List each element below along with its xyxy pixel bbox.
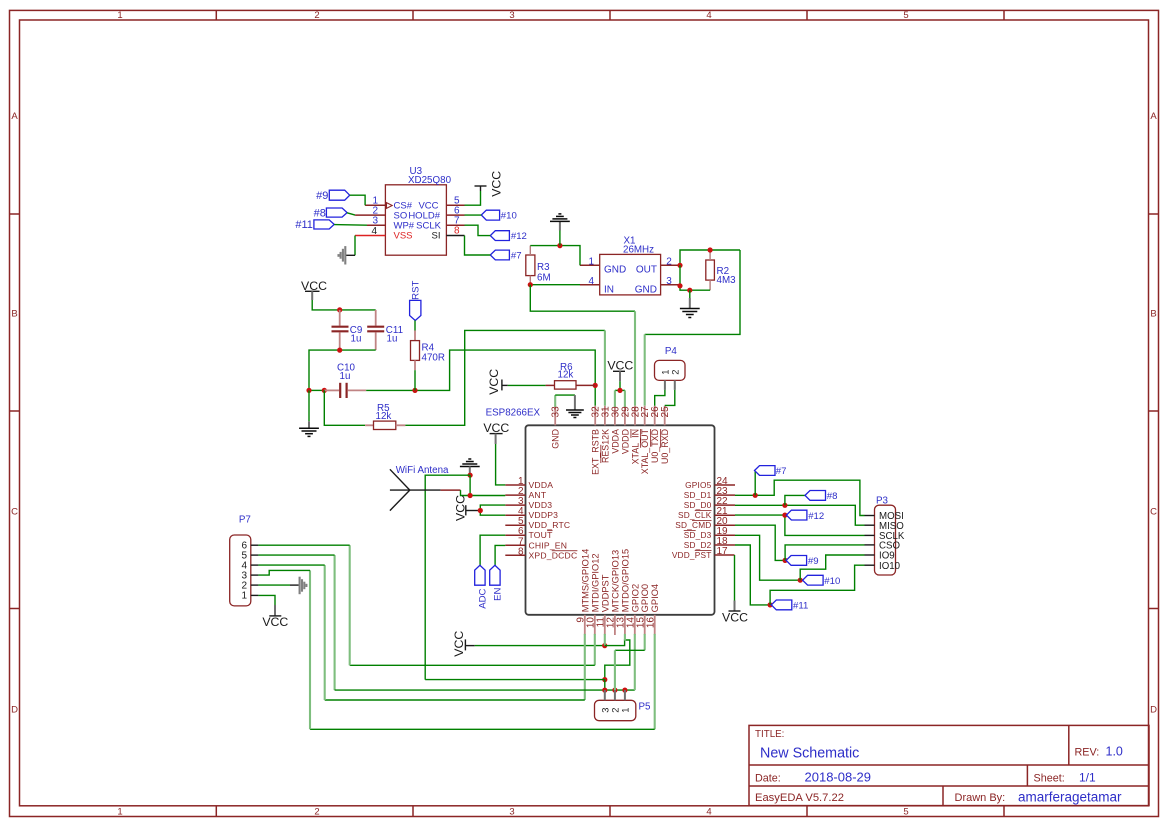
wire #8 to U3.2 bbox=[347, 213, 355, 215]
junction R3 bottom bbox=[528, 282, 533, 287]
svg-text:ANT: ANT bbox=[529, 490, 547, 500]
VCC flag above U3 (rotated) bbox=[475, 171, 504, 197]
P4 pin stubs bbox=[665, 380, 675, 390]
wire XTAL_OUT vertical to ESP pin 27 bbox=[644, 334, 646, 405]
svg-text:#9: #9 bbox=[808, 556, 819, 567]
wire SD_D2 (pin18) to IO10 and #11 bbox=[735, 545, 770, 605]
svg-text:#10: #10 bbox=[501, 211, 517, 222]
wire X1.2 OUT net bbox=[680, 250, 740, 265]
svg-text:D: D bbox=[1150, 705, 1157, 716]
junction R2 top bbox=[708, 247, 713, 252]
svg-text:SD_D1: SD_D1 bbox=[684, 490, 712, 500]
wire #11 to U3.3 bbox=[334, 224, 367, 227]
U3 pin 4 stub VSS bbox=[355, 235, 385, 237]
wire VCC to C9/C11 top bbox=[312, 300, 376, 310]
junction VDD3 net bbox=[478, 508, 483, 513]
net flag #7 (U3.8) bbox=[490, 250, 521, 261]
connector P5 body bbox=[595, 700, 652, 720]
net flag #7 bbox=[755, 466, 787, 478]
junction SD_D1 / #7 bbox=[753, 493, 758, 498]
svg-text:3: 3 bbox=[509, 807, 514, 818]
svg-text:VDDP3: VDDP3 bbox=[529, 510, 559, 520]
P7 pin stubs bbox=[251, 545, 259, 595]
svg-text:SD_CMD: SD_CMD bbox=[675, 520, 711, 530]
connector P3 body bbox=[875, 495, 896, 575]
svg-text:GND: GND bbox=[551, 429, 561, 449]
svg-text:2: 2 bbox=[314, 10, 319, 21]
svg-text:D: D bbox=[11, 705, 18, 716]
svg-text:4: 4 bbox=[706, 10, 711, 21]
wire pin 16 to P7.3 bbox=[310, 570, 655, 729]
wire VDD_PST (pin17) to VCC bbox=[734, 555, 736, 601]
svg-text:#7: #7 bbox=[511, 251, 522, 262]
ground (sloped, gray) at P7.2 bbox=[300, 577, 307, 595]
U3 pin 8 stub SI (black) bbox=[446, 235, 464, 237]
junction X1.3 stub bbox=[677, 283, 682, 288]
svg-text:SI: SI bbox=[432, 230, 441, 241]
wire pin 13 stub drop bbox=[624, 634, 626, 641]
wire pin 15 jog to P5.2 bbox=[615, 634, 645, 690]
svg-text:Date:: Date: bbox=[755, 773, 781, 785]
crystal X1 body bbox=[600, 236, 661, 295]
wire antenna long run to bottom nets bbox=[425, 475, 470, 679]
svg-text:TOUT: TOUT bbox=[529, 530, 554, 540]
ESP bottom pin stubs bbox=[585, 615, 655, 635]
wire P7.2 to ground bbox=[258, 584, 298, 586]
svg-text:C: C bbox=[11, 507, 18, 518]
wire pin 10 to P7.6 (W2) bbox=[350, 545, 595, 665]
junction pin 11 bbox=[602, 643, 607, 648]
ground (earth) below C10 rail bbox=[299, 421, 319, 436]
svg-text:#11: #11 bbox=[793, 601, 808, 612]
VCC flag below P7.1 (upside down) bbox=[262, 605, 288, 629]
svg-text:IO10: IO10 bbox=[879, 561, 901, 572]
ground (earth) below X1 bbox=[680, 290, 700, 317]
ground (earth, flipped) above X1 bbox=[550, 214, 570, 231]
svg-text:ADC: ADC bbox=[478, 588, 489, 608]
svg-text:REV:: REV: bbox=[1075, 747, 1100, 759]
svg-text:1: 1 bbox=[117, 10, 122, 21]
U3 pin names bbox=[394, 201, 442, 242]
wire #9 to U3.1 bbox=[350, 195, 365, 205]
wire P7.3 bbox=[258, 570, 310, 575]
svg-text:A: A bbox=[1150, 111, 1157, 122]
wire antenna net into P5.3 bbox=[604, 680, 606, 691]
junction SD_CLK / #12 bbox=[782, 513, 787, 518]
svg-text:1: 1 bbox=[620, 708, 630, 713]
wire VCC to ESP pin 11 VDDPST bbox=[475, 645, 605, 647]
junction SD_CMD / #9 bbox=[783, 558, 788, 563]
junction C10 left / R5 branch bbox=[322, 388, 327, 393]
U3 pin 1 stub with arrow bbox=[365, 203, 392, 209]
svg-text:P7: P7 bbox=[239, 515, 251, 526]
svg-text:A: A bbox=[11, 111, 18, 122]
svg-text:MTCK/GPIO13: MTCK/GPIO13 bbox=[610, 550, 620, 613]
svg-text:VSS: VSS bbox=[394, 231, 413, 242]
wire down to ground bbox=[308, 390, 310, 421]
wire SD_CLK (pin21) to SCLK bbox=[735, 515, 865, 535]
net flag EN bbox=[490, 565, 504, 601]
svg-text:12k: 12k bbox=[558, 369, 574, 380]
svg-text:1u: 1u bbox=[351, 334, 362, 345]
svg-text:470R: 470R bbox=[422, 353, 445, 364]
wire U3.8 to #7 bbox=[465, 236, 491, 256]
svg-text:4M3: 4M3 bbox=[717, 275, 737, 286]
P5 pin numbers bbox=[600, 708, 630, 713]
svg-text:WiFi Antena: WiFi Antena bbox=[396, 465, 449, 476]
svg-text:EN: EN bbox=[492, 588, 503, 601]
U3 pin numbers bbox=[371, 196, 460, 238]
junction P5.2 bbox=[612, 688, 617, 693]
U3 pin 3 stub bbox=[367, 224, 385, 226]
svg-text:B: B bbox=[1150, 309, 1156, 320]
ESP left pin numbers bbox=[518, 476, 524, 557]
svg-text:VDDPST: VDDPST bbox=[600, 574, 610, 612]
svg-text:1: 1 bbox=[117, 807, 122, 818]
svg-text:1u: 1u bbox=[387, 334, 398, 345]
svg-text:Drawn By:: Drawn By: bbox=[955, 792, 1006, 804]
svg-text:3: 3 bbox=[509, 10, 514, 21]
VCC flag top-left bbox=[301, 279, 327, 300]
ESP bottom pin names (rotated) bbox=[580, 549, 660, 613]
svg-text:VCC: VCC bbox=[490, 171, 504, 197]
svg-text:SD_D0: SD_D0 bbox=[684, 500, 712, 510]
svg-text:OUT: OUT bbox=[636, 264, 657, 275]
wire R5 left branch bbox=[324, 390, 365, 425]
svg-text:#8: #8 bbox=[827, 491, 838, 502]
VCC flag at ESP VDDA (pin1) bbox=[483, 421, 509, 444]
P5 pin stubs bbox=[605, 690, 625, 700]
svg-text:VCC: VCC bbox=[487, 369, 501, 395]
svg-text:XD25Q80: XD25Q80 bbox=[408, 175, 452, 186]
junction at gnd column bbox=[306, 388, 311, 393]
wire U3.6 to #10 bbox=[465, 214, 482, 216]
U3 pin 7 stub bbox=[446, 224, 464, 226]
svg-text:#10: #10 bbox=[824, 576, 840, 587]
wire R5 right to ESP pin 31 RES12K bbox=[405, 330, 605, 425]
resistor R2 bbox=[706, 250, 736, 290]
connector P4 body bbox=[655, 346, 686, 380]
U3 pin 6 stub bbox=[446, 214, 464, 216]
ESP right pin numbers bbox=[717, 476, 729, 557]
svg-text:SD_CLK: SD_CLK bbox=[678, 510, 712, 520]
svg-text:GPIO4: GPIO4 bbox=[650, 584, 660, 612]
svg-text:TITLE:: TITLE: bbox=[755, 729, 784, 740]
resistor R6 bbox=[546, 362, 596, 389]
U3 pin 5 stub bbox=[446, 204, 464, 206]
junction C9 bottom bbox=[337, 348, 342, 353]
VCC flag at VDD3/VDDP3 (rotated) bbox=[453, 495, 480, 521]
net flag #9 bbox=[786, 556, 818, 568]
wire P7.1 to VCC bbox=[258, 595, 275, 605]
net flag #11 bbox=[771, 600, 808, 612]
wire R3 top / X1.1 net bbox=[530, 246, 580, 266]
wire ESP pin33 GND bbox=[555, 395, 575, 407]
svg-text:VDDD: VDDD bbox=[620, 429, 630, 454]
svg-text:B: B bbox=[11, 309, 17, 320]
VCC flag for R6 (rotated) bbox=[487, 369, 508, 395]
svg-text:VCC: VCC bbox=[722, 610, 748, 624]
junction R4 bottom bbox=[412, 388, 417, 393]
svg-text:New Schematic: New Schematic bbox=[760, 746, 859, 762]
net flag #10 (U3.6) bbox=[481, 210, 517, 221]
svg-text:2018-08-29: 2018-08-29 bbox=[805, 770, 872, 785]
svg-text:XTAL_IN: XTAL_IN bbox=[631, 429, 641, 464]
wire P5 bus (W5) from P7.5 bbox=[335, 555, 635, 690]
svg-text:2: 2 bbox=[670, 370, 680, 375]
svg-text:VDD_PST: VDD_PST bbox=[672, 550, 712, 560]
svg-text:5: 5 bbox=[903, 807, 908, 818]
wire CHIP_EN to EN flag bbox=[495, 545, 505, 565]
junction at GND drop on X1.1 net bbox=[557, 243, 562, 248]
ESP top pin stubs bbox=[555, 406, 665, 426]
wire SD_D0 (pin22) to MISO bbox=[735, 505, 865, 525]
wire VCC to R6 left bbox=[508, 384, 546, 386]
wire SD_D3 (pin19) to IO9 and #10 bbox=[735, 535, 800, 580]
svg-text:17: 17 bbox=[717, 546, 729, 557]
svg-text:1/1: 1/1 bbox=[1079, 771, 1096, 785]
wire #7 drop bbox=[754, 471, 756, 496]
svg-text:C: C bbox=[1150, 507, 1157, 518]
svg-text:#12: #12 bbox=[808, 511, 824, 522]
ground (earth) at ESP pin 33 bbox=[566, 395, 584, 417]
svg-text:1.0: 1.0 bbox=[1106, 745, 1123, 759]
X1 pin names bbox=[604, 264, 657, 295]
wire OUT net down to XTAL_OUT bbox=[645, 250, 740, 334]
resistor R4 bbox=[411, 321, 445, 391]
P3 pin stubs bbox=[865, 516, 875, 566]
wire P4.1 to U0_TXD bbox=[655, 390, 665, 406]
junction P5.1 bbox=[622, 688, 627, 693]
wire SD_CMD (pin20) to CSO and #9 bbox=[735, 525, 785, 560]
svg-text:P5: P5 bbox=[639, 702, 652, 713]
ESP right pin names bbox=[672, 480, 712, 560]
wire U3 VSS to ground bbox=[346, 236, 355, 256]
svg-text:XPD_DCDC: XPD_DCDC bbox=[529, 550, 578, 560]
wire P4.2 to U0_RXD bbox=[665, 390, 675, 406]
net flag #11 bbox=[295, 219, 334, 231]
P4 pin numbers bbox=[660, 370, 680, 375]
wire VCC to VDD3/VDDP3 bbox=[480, 505, 505, 515]
ESP top pin numbers (rotated) bbox=[551, 406, 672, 418]
wire rail to C10 left bbox=[309, 389, 324, 391]
svg-text:EXT_RSTB: EXT_RSTB bbox=[591, 429, 601, 475]
svg-text:4: 4 bbox=[588, 276, 594, 287]
svg-text:1u: 1u bbox=[340, 371, 351, 382]
wire #9 up to CSO bbox=[785, 545, 864, 561]
antenna pin stub bbox=[441, 489, 461, 491]
svg-text:VDDA: VDDA bbox=[529, 480, 554, 490]
svg-text:12k: 12k bbox=[376, 411, 392, 422]
svg-text:GPIO2: GPIO2 bbox=[630, 584, 640, 612]
svg-text:GPIO0: GPIO0 bbox=[640, 584, 650, 612]
VCC flag below pin 17 (upside down) bbox=[722, 601, 748, 625]
svg-text:VCC: VCC bbox=[452, 631, 466, 657]
svg-text:2: 2 bbox=[314, 807, 319, 818]
resistor R3 bbox=[526, 246, 551, 285]
ESP left pin stubs bbox=[505, 485, 525, 555]
X1 pin numbers bbox=[588, 256, 672, 287]
junction gnd / antenna branch bbox=[468, 473, 473, 478]
connector P7 body bbox=[230, 515, 251, 606]
svg-text:CHIP_EN: CHIP_EN bbox=[529, 540, 568, 550]
svg-text:#11: #11 bbox=[295, 219, 313, 231]
svg-text:VDD_RTC: VDD_RTC bbox=[529, 520, 571, 530]
VCC flag at ESP pins 29/30 bbox=[607, 359, 633, 382]
wire TOUT to ADC flag bbox=[480, 535, 505, 565]
svg-text:8: 8 bbox=[518, 546, 524, 557]
junction ground stem bbox=[687, 288, 692, 293]
wire R3 bottom down to XTAL_IN run bbox=[530, 285, 635, 312]
svg-text:5: 5 bbox=[903, 10, 908, 21]
resistor R5 bbox=[365, 403, 405, 430]
svg-text:MTDO/GPIO15: MTDO/GPIO15 bbox=[620, 549, 630, 613]
svg-text:SD_D3: SD_D3 bbox=[684, 530, 712, 540]
wire #10 up to IO9 bbox=[800, 555, 864, 580]
svg-text:26MHz: 26MHz bbox=[623, 245, 654, 256]
ESP bottom pin numbers (rotated) bbox=[576, 617, 657, 629]
svg-text:1: 1 bbox=[660, 370, 670, 375]
svg-text:3: 3 bbox=[600, 708, 610, 713]
net flag #12 (U3.7) bbox=[490, 231, 527, 242]
wire U3.7 to #12 bbox=[465, 225, 491, 235]
svg-text:25: 25 bbox=[660, 406, 671, 418]
capacitor C10 bbox=[324, 362, 366, 398]
svg-text:GND: GND bbox=[604, 264, 626, 275]
svg-text:VCC: VCC bbox=[262, 615, 288, 629]
junction SD_D2 / #11 bbox=[768, 602, 773, 607]
svg-text:#8: #8 bbox=[314, 208, 326, 220]
wire pin 9 to P7.4 (W6) bbox=[325, 565, 585, 700]
svg-text:R3: R3 bbox=[537, 262, 550, 273]
wire VCC to VDDA/VDDD pins bbox=[615, 381, 625, 407]
ESP top pin names (rotated) bbox=[551, 428, 671, 474]
svg-text:Sheet:: Sheet: bbox=[1034, 773, 1065, 785]
svg-text:RST: RST bbox=[411, 280, 422, 299]
flash chip U3 body bbox=[385, 166, 451, 255]
svg-text:U0_TXD: U0_TXD bbox=[650, 429, 660, 463]
svg-text:GND: GND bbox=[635, 284, 657, 295]
wire SD_D1 (pin23) to MOSI bbox=[735, 480, 865, 515]
wire VCC net jog to pin 13 bbox=[605, 640, 630, 680]
svg-text:EasyEDA V5.7.22: EasyEDA V5.7.22 bbox=[755, 792, 844, 804]
IC ESP8266EX body bbox=[486, 407, 715, 615]
svg-text:amarferagetamar: amarferagetamar bbox=[1018, 790, 1122, 805]
svg-text:IN: IN bbox=[604, 284, 614, 295]
VCC flag at VDDPST row (rotated) bbox=[452, 631, 475, 657]
svg-text:GPIO5: GPIO5 bbox=[685, 480, 712, 490]
svg-text:XTAL_OUT: XTAL_OUT bbox=[640, 428, 650, 474]
wire X1.3 / R2 bottom ground net bbox=[680, 265, 710, 290]
svg-text:VDDA: VDDA bbox=[610, 429, 620, 454]
junction VCC pins 29/30 bbox=[617, 388, 622, 393]
junction P5.3 bbox=[602, 688, 607, 693]
wire RES12K vertical to ESP pin 31 bbox=[604, 330, 606, 405]
title block bbox=[749, 725, 1149, 805]
wire P7.5 bbox=[258, 554, 334, 556]
wire XTAL_IN vertical to ESP pin 28 bbox=[634, 311, 636, 406]
svg-text:2: 2 bbox=[610, 708, 620, 713]
P3 pin names bbox=[879, 511, 905, 572]
wire P7.4 bbox=[258, 564, 324, 566]
svg-text:4: 4 bbox=[706, 807, 711, 818]
junction SD_D0 / #8 bbox=[782, 503, 787, 508]
ground (earth, flipped) above ANT net bbox=[460, 459, 480, 475]
ESP right pin stubs bbox=[715, 485, 736, 555]
P7 pin numbers bbox=[241, 541, 247, 602]
svg-text:MTDI/GPIO12: MTDI/GPIO12 bbox=[590, 553, 600, 612]
svg-text:P4: P4 bbox=[665, 346, 678, 357]
wire pin 11 stub drop bbox=[604, 634, 606, 646]
svg-text:RES12K: RES12K bbox=[600, 429, 610, 463]
svg-text:1: 1 bbox=[241, 591, 247, 602]
net flag #8 bbox=[314, 208, 347, 220]
svg-text:VDD3: VDD3 bbox=[529, 500, 553, 510]
wire U3.5 to VCC bbox=[465, 191, 481, 205]
junction SD_D3 / #10 bbox=[798, 578, 803, 583]
X1 pin stubs bbox=[580, 265, 680, 284]
wire #8 link bbox=[785, 495, 805, 505]
ground (sloped, gray) at U3 VSS bbox=[339, 246, 346, 264]
svg-text:#7: #7 bbox=[776, 466, 787, 477]
wire #11 up to IO10 bbox=[770, 565, 864, 605]
net flag ADC bbox=[475, 565, 489, 609]
wire C10 right to R4 bottom junction then to EXT_RSTB bbox=[366, 350, 595, 406]
capacitor C9 bbox=[332, 310, 363, 350]
junction on antenna net bbox=[602, 677, 607, 682]
svg-text:ESP8266EX: ESP8266EX bbox=[486, 407, 541, 418]
svg-text:U0_RXD: U0_RXD bbox=[660, 429, 670, 464]
svg-text:#9: #9 bbox=[316, 190, 328, 202]
net flag RST bbox=[410, 280, 422, 320]
wire R3 bottom / X1.4 net bbox=[530, 284, 580, 286]
junction X1.2 stub bbox=[677, 263, 682, 268]
svg-text:P3: P3 bbox=[876, 495, 889, 506]
wire C9/C11 bottom rail bbox=[309, 350, 376, 390]
wire VCC to VDDA pin 1 bbox=[496, 444, 506, 485]
svg-text:16: 16 bbox=[646, 617, 657, 629]
wire W4 antenna horizontal bbox=[425, 679, 605, 681]
wire stem of top ground bbox=[559, 231, 561, 246]
svg-text:SD_D2: SD_D2 bbox=[684, 540, 712, 550]
ESP left pin names bbox=[529, 480, 578, 560]
svg-text:6M: 6M bbox=[537, 272, 551, 283]
net flag #10 bbox=[803, 575, 841, 587]
junction R6 right on reset net bbox=[593, 383, 598, 388]
net flag #9 bbox=[316, 190, 350, 202]
net flag #8 bbox=[805, 491, 837, 503]
svg-text:3: 3 bbox=[666, 276, 672, 287]
wire gnd branch down to ANT wire bbox=[469, 475, 471, 495]
wire P7.6 bbox=[258, 544, 349, 546]
svg-text:#12: #12 bbox=[511, 231, 527, 242]
svg-text:33: 33 bbox=[551, 406, 562, 418]
WiFi antenna symbol bbox=[390, 469, 441, 510]
net flag #12 bbox=[786, 510, 824, 522]
capacitor C11 bbox=[367, 310, 403, 350]
U3 pin 2 stub bbox=[355, 214, 385, 216]
junction C9 top bbox=[337, 307, 342, 312]
junction ANT net bbox=[468, 493, 473, 498]
wire antenna to ESP ANT pin 2 bbox=[461, 490, 506, 495]
svg-text:MTMS/GPIO14: MTMS/GPIO14 bbox=[580, 549, 590, 613]
